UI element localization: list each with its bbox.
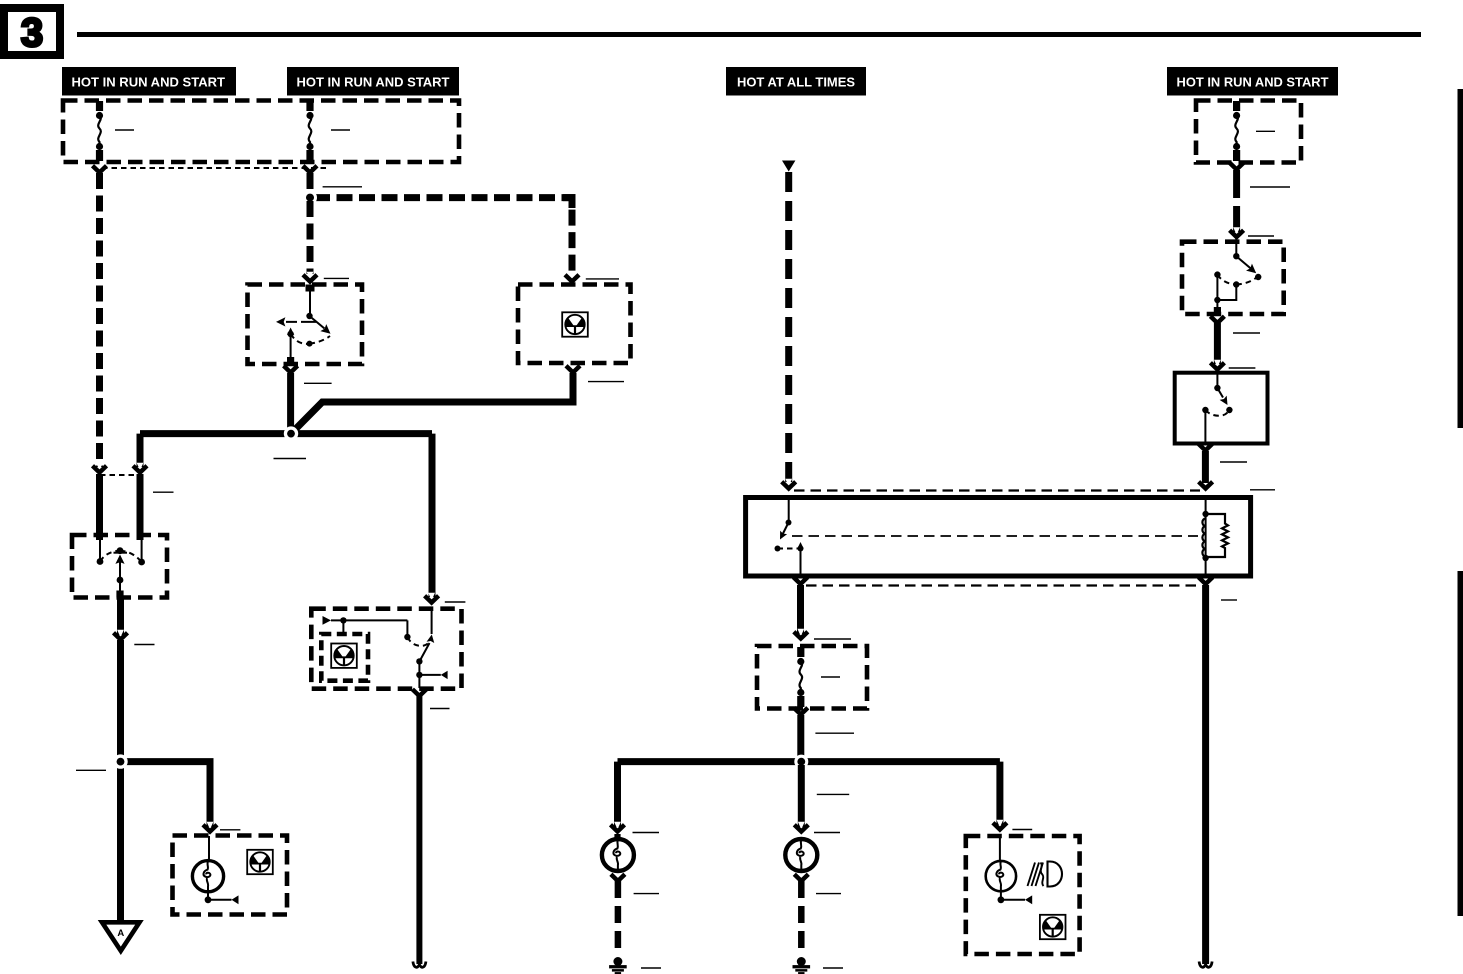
wire lamp M to ground (dashed) [798, 881, 805, 954]
fog lamp R box [966, 836, 1080, 954]
page tab "3" box [4, 8, 60, 55]
connector at fog lamp L input [611, 822, 625, 832]
wire J3 down [798, 765, 805, 827]
header HOT IN RUN AND START (second) [287, 67, 459, 96]
connector at dimmer input right [133, 463, 147, 473]
connector at S4 input [1210, 360, 1224, 370]
wire battery feed down (dashed) [785, 172, 792, 483]
connector at S1 output [284, 366, 298, 373]
wire fuse F3 down segment 2 [1233, 206, 1240, 232]
connector at relay output right [1199, 577, 1213, 584]
battery feed arrow (HOT AT ALL TIMES) [782, 161, 795, 172]
fog light switch S3 (dashed box) [1182, 238, 1284, 314]
wire J2 to license lamp [121, 762, 211, 827]
B1 component box with ground icon [518, 285, 631, 364]
connector at fog lamp R input [993, 820, 1007, 830]
fuse F4 value label [821, 676, 840, 678]
connector at relay input left [782, 479, 796, 489]
connector at lamp M input [794, 822, 808, 832]
license plate lamp box [173, 836, 288, 915]
fuse F2 value label [331, 129, 350, 131]
connector tie line [100, 474, 140, 476]
wire relay output down [797, 585, 804, 634]
wire label [1248, 235, 1274, 237]
wire label [304, 382, 332, 384]
wire label [1220, 461, 1247, 463]
fog lamp L bulb [602, 834, 634, 871]
connector at S5 output [412, 689, 426, 696]
wire dimmer output down [117, 597, 124, 635]
svg-text:HOT IN RUN AND START: HOT IN RUN AND START [1177, 75, 1329, 90]
dimmer switch S2 (dashed box) [72, 535, 167, 598]
connector at relay input right [1199, 479, 1213, 489]
connector at fuse F1 output [93, 166, 107, 173]
junction of headlight switch feed [303, 191, 317, 205]
wire fuse F3 down segment 1 [1233, 170, 1240, 198]
wire label [633, 832, 660, 834]
wire label [814, 638, 851, 640]
connector at B1 output [566, 366, 580, 373]
junction J2 label [76, 769, 106, 771]
wire S1 output down to junction [287, 373, 294, 430]
fuse F3 [1233, 101, 1240, 161]
wire right branch down to S5 [429, 434, 436, 597]
connector at fog lamp L output [611, 874, 625, 881]
off-page connector A (triangle) [102, 922, 140, 951]
connector at S4 output [1198, 444, 1212, 451]
header HOT IN RUN AND START (left) [62, 67, 236, 96]
junction J1 [284, 426, 298, 440]
wire S4 to relay [1202, 451, 1209, 483]
svg-text:3: 3 [21, 11, 43, 55]
wire junction to right (dashed) then down to B1 [314, 198, 572, 274]
wire fuse F4 down to junction J3 [797, 715, 804, 758]
wire S5 output down long [416, 696, 422, 964]
wire B1 output down then left to junction [291, 373, 573, 434]
connector at lamp M output [794, 874, 808, 881]
fuse block (left, dashed) [63, 101, 459, 163]
svg-text:HOT AT ALL TIMES: HOT AT ALL TIMES [737, 75, 855, 90]
wire left branch down [137, 434, 144, 467]
wire label [815, 732, 854, 734]
fog lamp relay (solid box) [746, 498, 1251, 577]
fuse block (right, dashed) [1196, 101, 1301, 163]
wire fog lamp L to ground (dashed) [615, 881, 622, 954]
connector label [153, 491, 174, 493]
wire label [814, 832, 840, 834]
junction J1 label [274, 458, 307, 460]
connector at relay output left [794, 577, 808, 584]
wire lamp bus horizontal [618, 758, 1000, 765]
wire into dimmer left [96, 474, 103, 540]
in-line fuse box (dashed) [757, 646, 867, 709]
right margin bar upper [1458, 89, 1463, 428]
wire fuse F1 down (dashed) [96, 173, 103, 467]
ground G1 [609, 957, 627, 974]
wire label [816, 893, 841, 895]
connector at fuse F2 output [303, 166, 317, 173]
wire label [1229, 367, 1256, 369]
wire label [134, 644, 154, 646]
wire label [430, 708, 450, 710]
fuse F1 [96, 101, 103, 161]
wire label [220, 829, 240, 831]
relay connector bottom dashed line [806, 584, 1200, 586]
connector at fuse F3 output [1230, 163, 1244, 170]
wire label [1233, 332, 1260, 334]
header HOT IN RUN AND START (right) [1167, 67, 1338, 96]
wire label [445, 601, 466, 603]
connector mid wire [114, 630, 128, 640]
wire to fog lamp L [614, 762, 621, 827]
connector at B1 input [565, 272, 579, 282]
wire label [588, 381, 624, 383]
wire label [324, 277, 349, 279]
junction J2 [113, 754, 127, 768]
wire label [1012, 829, 1032, 831]
connector at dimmer input left [93, 463, 107, 473]
svg-text:HOT IN RUN AND START: HOT IN RUN AND START [297, 75, 450, 90]
wire to fog lamp R box [996, 762, 1003, 825]
fuse F4 [797, 647, 804, 707]
wire J2 down to off-page A [117, 765, 124, 920]
connector at headlight switch input [303, 272, 317, 282]
connector at S3 output [1210, 316, 1224, 323]
wire relay output right down long [1202, 585, 1209, 964]
connector at S5 input [425, 593, 439, 603]
switch S4 (solid box) [1175, 373, 1268, 444]
connector at fog switch input [1230, 227, 1244, 237]
wire label [1250, 186, 1290, 188]
ground G2 label [823, 967, 843, 969]
fuse F2 [306, 101, 313, 161]
top rule [77, 32, 1421, 37]
wire label [323, 186, 362, 188]
wire junction down to headlight switch [307, 201, 314, 274]
wire junction horizontal [140, 430, 432, 437]
svg-text:A: A [117, 928, 124, 939]
wire label [1221, 599, 1237, 601]
connector at fuse F4 output [794, 708, 808, 715]
junction J3 [794, 755, 808, 769]
header HOT AT ALL TIMES [726, 67, 866, 96]
wire S3 to S4 [1214, 323, 1221, 364]
ground G2 [793, 957, 811, 974]
connector at license lamp input [203, 822, 217, 832]
ground G1 label [641, 967, 661, 969]
fuse F1 value label [115, 129, 134, 131]
junction J3 label [817, 793, 849, 795]
wire label [634, 893, 659, 895]
right margin bar lower [1458, 571, 1463, 916]
connector pair line below fuse block [102, 167, 326, 169]
wire into dimmer right [137, 474, 144, 540]
wire end curl right [1199, 962, 1212, 968]
wire label [586, 278, 619, 280]
wire down to junction J2 [117, 640, 124, 757]
parking lamp switch box S5 (dashed) [311, 609, 461, 689]
wire end curl left [413, 962, 426, 968]
connector at fuse F4 input [794, 629, 808, 639]
wire fuse F2 down to junction [307, 173, 314, 196]
headlight switch S1 (dashed box) [248, 285, 363, 365]
svg-text:HOT IN RUN AND START: HOT IN RUN AND START [72, 75, 226, 90]
wire label [1250, 489, 1275, 491]
relay connector top dashed line [794, 489, 1200, 491]
fuse F3 value label [1256, 130, 1275, 132]
lamp M bulb [785, 839, 817, 871]
